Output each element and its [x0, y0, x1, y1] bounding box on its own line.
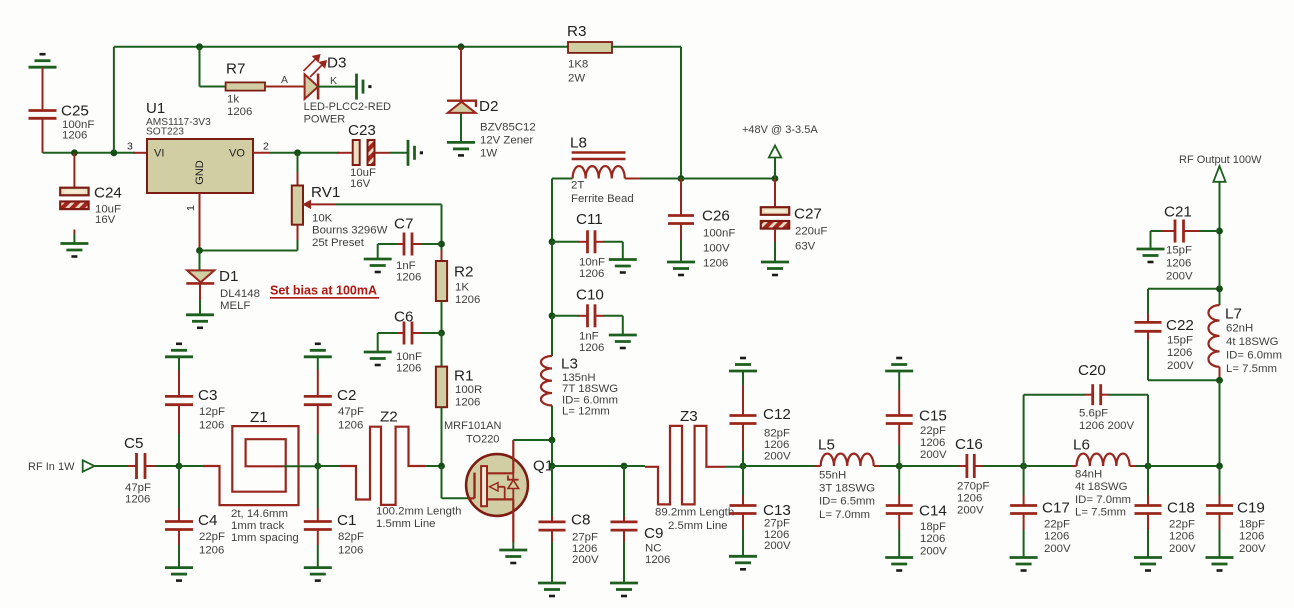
svg-text:22pF: 22pF: [1169, 519, 1195, 531]
node (D2 branch): [458, 43, 465, 50]
svg-text:Z2: Z2: [380, 409, 398, 426]
capacitor C25: [42, 67, 44, 110]
ground (right of C11): [609, 258, 637, 261]
svg-text:C13: C13: [763, 502, 791, 519]
svg-text:200V: 200V: [572, 554, 599, 566]
svg-text:1: 1: [185, 205, 197, 211]
svg-text:1206: 1206: [199, 420, 224, 432]
inductor L5: [743, 465, 815, 467]
svg-text:GND: GND: [194, 160, 206, 185]
svg-text:3: 3: [127, 141, 133, 153]
ground (right of C23): [407, 140, 410, 166]
ground (above C2): [304, 355, 332, 358]
svg-text:63V: 63V: [795, 241, 816, 253]
svg-text:D3: D3: [327, 55, 346, 72]
wire (C25 to U1 pin 3): [43, 152, 136, 154]
node (R7 branch): [196, 43, 203, 50]
wire (output node right): [552, 465, 624, 467]
svg-text:7T 18SWG: 7T 18SWG: [562, 383, 618, 395]
svg-text:VI: VI: [154, 148, 164, 160]
svg-text:18pF: 18pF: [1239, 519, 1265, 531]
svg-text:82pF: 82pF: [764, 428, 790, 440]
node (C24 tap): [71, 149, 78, 156]
svg-text:MRF101AN: MRF101AN: [444, 420, 502, 432]
svg-text:1206: 1206: [1239, 531, 1264, 543]
svg-text:200V: 200V: [764, 540, 791, 552]
svg-text:55nH: 55nH: [819, 469, 846, 481]
wire (Q1 drain up to node): [513, 439, 552, 441]
svg-text:1206: 1206: [572, 543, 597, 555]
svg-text:47pF: 47pF: [338, 406, 364, 418]
svg-text:1206: 1206: [1044, 531, 1069, 543]
svg-text:ID= 7.0mm: ID= 7.0mm: [1075, 494, 1131, 506]
wire (input to C5): [94, 465, 128, 467]
ground (left of C7): [364, 258, 392, 261]
inductor L8 (ferrite bead): [552, 178, 573, 180]
svg-text:82pF: 82pF: [338, 531, 364, 543]
svg-text:18pF: 18pF: [920, 521, 946, 533]
svg-text:C8: C8: [571, 512, 590, 529]
svg-text:NC: NC: [645, 542, 661, 554]
capacitor C17: [1023, 466, 1025, 495]
capacitor C20 (feedback loop): [1023, 395, 1025, 466]
svg-text:BZV85C12: BZV85C12: [480, 122, 536, 134]
node (L7 bottom): [1216, 377, 1223, 384]
svg-text:100R: 100R: [455, 384, 482, 396]
microstrip line Z2: [318, 465, 340, 467]
svg-text:1206: 1206: [338, 544, 363, 556]
node (L7 top): [1216, 285, 1223, 292]
node (C7/R2): [438, 241, 445, 248]
microstrip line Z3: [624, 465, 645, 467]
svg-text:200V: 200V: [1239, 543, 1266, 555]
diode D1: [199, 251, 201, 271]
svg-text:25t Preset: 25t Preset: [312, 237, 365, 249]
wire (D3 cathode to ground): [318, 86, 356, 88]
svg-text:10nF: 10nF: [396, 351, 422, 363]
svg-text:L5: L5: [818, 437, 835, 454]
wire (top supply rail): [114, 46, 568, 48]
capacitor C11: [552, 241, 579, 243]
trimmer RV1: [297, 153, 299, 173]
svg-text:200V: 200V: [957, 505, 984, 517]
svg-text:POWER: POWER: [304, 114, 346, 126]
svg-text:3T 18SWG: 3T 18SWG: [819, 483, 875, 495]
wire (drain node down): [551, 440, 553, 466]
svg-text:1206: 1206: [957, 493, 982, 505]
node (pin1 / D1 / RV1): [196, 247, 203, 254]
wire (RV1 wiper run down): [441, 204, 443, 250]
svg-text:1mm spacing: 1mm spacing: [231, 532, 299, 544]
wire (link C22 to L7 bottom): [1148, 379, 1220, 381]
svg-text:LED-PLCC2-RED: LED-PLCC2-RED: [304, 101, 391, 113]
svg-text:1206: 1206: [703, 258, 728, 270]
svg-text:47pF: 47pF: [125, 482, 151, 494]
capacitor C6: [412, 332, 421, 334]
svg-text:200V: 200V: [1167, 360, 1194, 372]
wire (U1 GND pin 1): [199, 193, 201, 251]
capacitor C26: [680, 179, 682, 216]
ground (above C15): [885, 370, 913, 373]
svg-text:27pF: 27pF: [764, 518, 790, 530]
svg-text:C6: C6: [394, 309, 413, 326]
svg-text:A: A: [281, 74, 288, 86]
svg-text:10K: 10K: [312, 212, 333, 224]
svg-text:RF In 1W: RF In 1W: [28, 461, 75, 473]
wire (output column): [1219, 182, 1221, 289]
svg-text:C26: C26: [702, 208, 730, 225]
svg-text:2W: 2W: [568, 73, 585, 85]
svg-text:1206: 1206: [579, 342, 604, 354]
svg-text:R1: R1: [454, 368, 473, 385]
ground (below C27): [761, 261, 789, 264]
svg-text:10nF: 10nF: [579, 256, 605, 268]
capacitor C10: [552, 315, 579, 317]
capacitor C9: [623, 466, 625, 516]
svg-text:1nF: 1nF: [579, 330, 599, 342]
svg-text:D1: D1: [219, 268, 238, 285]
ground (below C14): [885, 556, 913, 559]
svg-text:SOT223: SOT223: [146, 127, 184, 138]
capacitor C12: [742, 371, 744, 385]
svg-text:1K: 1K: [455, 282, 469, 294]
svg-text:12pF: 12pF: [199, 406, 225, 418]
svg-text:C21: C21: [1164, 204, 1192, 221]
svg-text:L8: L8: [570, 135, 587, 152]
svg-text:ID= 6.5mm: ID= 6.5mm: [819, 496, 875, 508]
svg-text:C1: C1: [337, 512, 356, 529]
node (rail riser): [111, 149, 118, 156]
svg-text:1206: 1206: [764, 529, 789, 541]
svg-text:C17: C17: [1042, 500, 1070, 517]
svg-text:R2: R2: [454, 264, 473, 281]
wire (main line to output): [1148, 465, 1220, 467]
node (C12/C13): [740, 463, 747, 470]
svg-text:1.5mm Line: 1.5mm Line: [376, 518, 436, 530]
svg-text:1206: 1206: [199, 544, 224, 556]
svg-text:C27: C27: [794, 206, 822, 223]
svg-text:RV1: RV1: [311, 184, 340, 201]
svg-text:100V: 100V: [703, 243, 730, 255]
svg-text:200V: 200V: [764, 451, 791, 463]
node (drain / L3): [549, 437, 556, 444]
wire (Q1 source to ground): [512, 542, 514, 550]
capacitor C19: [1219, 466, 1221, 495]
wire (R7 to D3 anode): [265, 86, 305, 88]
svg-text:L6: L6: [1073, 437, 1090, 454]
wire (gate node to Q1 gate): [441, 466, 443, 498]
transistor Q1 MRF101AN: [466, 454, 528, 516]
svg-text:1206: 1206: [455, 396, 480, 408]
ground (left of C21): [1137, 248, 1165, 251]
svg-text:135nH: 135nH: [562, 372, 596, 384]
svg-text:1206: 1206: [579, 268, 604, 280]
svg-text:C2: C2: [337, 387, 356, 404]
svg-text:5.6pF: 5.6pF: [1079, 408, 1108, 420]
wire (L8 to supply node): [625, 178, 640, 180]
svg-text:12V Zener: 12V Zener: [480, 135, 533, 147]
svg-text:L3: L3: [561, 356, 578, 373]
wire (RV1 bottom to GND pin node): [297, 225, 299, 240]
wire (L8 left leg down): [551, 179, 553, 242]
capacitor C5: [135, 453, 138, 479]
capacitor C27: [774, 179, 776, 208]
svg-text:C20: C20: [1078, 362, 1106, 379]
microstrip spiral Z1: [179, 465, 203, 467]
svg-text:K: K: [330, 75, 337, 87]
svg-text:MELF: MELF: [220, 300, 250, 312]
svg-text:2T: 2T: [571, 180, 584, 192]
node (C18/L6/C20): [1145, 463, 1152, 470]
svg-text:C16: C16: [955, 436, 983, 453]
svg-text:200V: 200V: [1166, 271, 1193, 283]
svg-text:22pF: 22pF: [1044, 519, 1070, 531]
node (gate): [438, 463, 445, 470]
node (C15/C14): [896, 463, 903, 470]
svg-text:200V: 200V: [920, 545, 947, 557]
wire (U1 VO pin 2 to C23): [253, 152, 270, 154]
svg-text:C24: C24: [94, 185, 122, 202]
svg-text:VO: VO: [229, 148, 245, 160]
node (C21): [1216, 228, 1223, 235]
svg-text:1nF: 1nF: [396, 260, 416, 272]
svg-text:C23: C23: [348, 122, 376, 139]
node (C10 tap): [549, 312, 556, 319]
wire (C22 top link): [1148, 288, 1220, 290]
node (Q1 output): [549, 463, 556, 470]
svg-text:C5: C5: [124, 435, 143, 452]
node (C2/C1/Z2): [314, 463, 321, 470]
capacitor C23: [353, 140, 360, 165]
inductor L6: [1024, 465, 1072, 467]
svg-text:C25: C25: [61, 103, 89, 120]
wire (C20 leg down to C18 node): [1147, 395, 1149, 466]
capacitor C2: [317, 357, 319, 370]
svg-text:1206: 1206: [62, 130, 87, 142]
svg-text:200V: 200V: [1044, 543, 1071, 555]
svg-text:1206: 1206: [338, 420, 363, 432]
wire (riser to top rail): [113, 47, 115, 153]
svg-text:2t, 14.6mm: 2t, 14.6mm: [231, 508, 288, 520]
svg-text:C12: C12: [763, 406, 791, 423]
svg-text:R3: R3: [567, 23, 586, 40]
LED D3: [305, 74, 319, 99]
svg-text:270pF: 270pF: [957, 481, 989, 493]
svg-text:C15: C15: [919, 408, 947, 425]
svg-text:C14: C14: [919, 503, 947, 520]
svg-text:2: 2: [263, 141, 269, 153]
ground (above C12): [729, 370, 757, 373]
svg-text:+48V @ 3-3.5A: +48V @ 3-3.5A: [742, 124, 818, 136]
svg-text:200V: 200V: [920, 449, 947, 461]
svg-text:1206: 1206: [920, 533, 945, 545]
svg-text:16V: 16V: [350, 178, 371, 190]
svg-text:L= 7.5mm: L= 7.5mm: [1226, 363, 1277, 375]
svg-text:U1: U1: [146, 100, 165, 117]
svg-text:L= 12mm: L= 12mm: [562, 406, 610, 418]
svg-text:1206: 1206: [645, 554, 670, 566]
svg-text:Set bias at 100mA: Set bias at 100mA: [270, 284, 377, 298]
svg-text:1W: 1W: [480, 148, 497, 160]
capacitor C15: [898, 371, 900, 390]
ground (right of D3): [355, 74, 358, 100]
svg-text:R7: R7: [226, 61, 245, 78]
svg-text:1206: 1206: [764, 439, 789, 451]
svg-text:Z1: Z1: [250, 409, 268, 426]
voltage regulator U1: [147, 139, 253, 193]
node (C3/C4/Z1): [176, 463, 183, 470]
capacitor C16: [899, 465, 959, 467]
svg-text:15pF: 15pF: [1167, 335, 1193, 347]
node (C6/R1): [438, 330, 445, 337]
supply arrow +48V: [769, 146, 781, 158]
capacitor C8: [551, 466, 553, 516]
capacitor C18: [1147, 466, 1149, 495]
svg-text:C9: C9: [644, 525, 663, 542]
ground (right of C10): [609, 334, 637, 337]
node (C9): [621, 463, 628, 470]
svg-text:4t 18SWG: 4t 18SWG: [1226, 336, 1279, 348]
svg-text:C18: C18: [1167, 500, 1195, 517]
svg-text:ID= 6.0mm: ID= 6.0mm: [562, 394, 618, 406]
resistor R3: [568, 42, 612, 53]
svg-text:1206: 1206: [227, 106, 252, 118]
ground (below C4): [165, 566, 193, 569]
wire (C11 to C10): [551, 242, 553, 316]
node (C19/output): [1216, 463, 1223, 470]
capacitor C4: [178, 466, 180, 508]
svg-text:1206: 1206: [1169, 531, 1194, 543]
svg-text:89.2mm Length: 89.2mm Length: [655, 507, 734, 519]
ground (below C19): [1206, 556, 1234, 559]
wire (C5 to node): [145, 465, 155, 467]
svg-text:1206: 1206: [396, 272, 421, 284]
ground (below D1): [186, 313, 214, 316]
svg-text:1206: 1206: [1167, 347, 1192, 359]
svg-text:C11: C11: [576, 211, 603, 228]
svg-text:Bourns 3296W: Bourns 3296W: [312, 225, 388, 237]
svg-text:L= 7.5mm: L= 7.5mm: [1075, 507, 1126, 519]
svg-text:1206: 1206: [920, 437, 945, 449]
ground (top-left, above C25): [29, 66, 57, 69]
svg-text:RF Output 100W: RF Output 100W: [1179, 154, 1262, 166]
svg-text:DL4148: DL4148: [220, 288, 260, 300]
svg-text:4t 18SWG: 4t 18SWG: [1075, 481, 1128, 493]
svg-text:200V: 200V: [1169, 543, 1196, 555]
inductor L3: [551, 316, 553, 356]
capacitor C13: [742, 466, 744, 495]
svg-text:22pF: 22pF: [199, 531, 225, 543]
capacitor C1: [317, 466, 319, 508]
node (C11 tap): [549, 238, 556, 245]
inductor L7: [1219, 289, 1221, 305]
svg-text:1206: 1206: [455, 294, 480, 306]
svg-text:C22: C22: [1166, 317, 1194, 334]
svg-text:15pF: 15pF: [1166, 245, 1192, 257]
svg-text:C10: C10: [576, 287, 604, 304]
resistor R7: [199, 47, 201, 87]
svg-text:84nH: 84nH: [1075, 469, 1102, 481]
svg-text:1206: 1206: [125, 494, 150, 506]
ground (below C18): [1134, 556, 1162, 559]
svg-text:100.2mm Length: 100.2mm Length: [376, 506, 462, 518]
svg-text:1206: 1206: [1166, 258, 1191, 270]
ground (below C13): [729, 555, 757, 558]
node (C17/C20/L6): [1020, 463, 1027, 470]
svg-text:C7: C7: [394, 216, 413, 233]
svg-text:62nH: 62nH: [1226, 323, 1253, 335]
svg-text:C4: C4: [198, 512, 217, 529]
svg-text:D2: D2: [479, 98, 498, 115]
resistor R1: [441, 333, 443, 367]
ground (left of C6): [364, 351, 392, 354]
svg-text:C19: C19: [1237, 500, 1265, 517]
svg-text:C3: C3: [198, 387, 217, 404]
capacitor C21: [1184, 230, 1201, 232]
ground (below C1): [304, 566, 332, 569]
svg-text:22pF: 22pF: [920, 425, 946, 437]
capacitor C7: [412, 243, 421, 245]
node (VO / RV1): [294, 149, 301, 156]
wire (R3 to supply node): [612, 46, 681, 48]
wire (C23 to ground): [375, 152, 391, 154]
ground (below C9): [610, 582, 638, 585]
svg-text:Ferrite Bead: Ferrite Bead: [571, 193, 634, 205]
svg-text:2.5mm Line: 2.5mm Line: [668, 520, 728, 532]
svg-text:27pF: 27pF: [572, 532, 598, 544]
capacitor C22: [1147, 314, 1149, 322]
ground (below C26): [667, 261, 695, 264]
svg-text:TO220: TO220: [466, 434, 499, 446]
svg-text:1mm track: 1mm track: [231, 520, 284, 532]
svg-text:220uF: 220uF: [795, 226, 827, 238]
svg-text:1K8: 1K8: [568, 59, 588, 71]
svg-text:Z3: Z3: [680, 408, 698, 425]
ground (Q1 source): [499, 549, 527, 552]
node (+48V / C27): [772, 175, 779, 182]
ground (below C8): [538, 582, 566, 585]
svg-text:ID= 6.0mm: ID= 6.0mm: [1226, 350, 1282, 362]
ground (below C24): [60, 242, 88, 245]
svg-text:1k: 1k: [227, 94, 239, 106]
resistor R2: [441, 250, 443, 261]
ground (below C17): [1010, 556, 1038, 559]
capacitor C3: [178, 357, 180, 370]
capacitor C14: [898, 466, 900, 495]
ground (above C3): [165, 355, 193, 358]
svg-text:L7: L7: [1225, 306, 1242, 323]
svg-text:100nF: 100nF: [703, 227, 735, 239]
capacitor C24: [73, 153, 75, 188]
wire (supply node to +48V): [681, 178, 775, 180]
ground (below D2): [447, 141, 475, 144]
svg-text:L= 7.0mm: L= 7.0mm: [819, 509, 870, 521]
node (L8 right / C26): [678, 175, 685, 182]
svg-text:16V: 16V: [95, 214, 116, 226]
svg-text:1206 200V: 1206 200V: [1079, 420, 1135, 432]
svg-text:1206: 1206: [396, 363, 421, 375]
zener diode D2: [460, 47, 462, 100]
